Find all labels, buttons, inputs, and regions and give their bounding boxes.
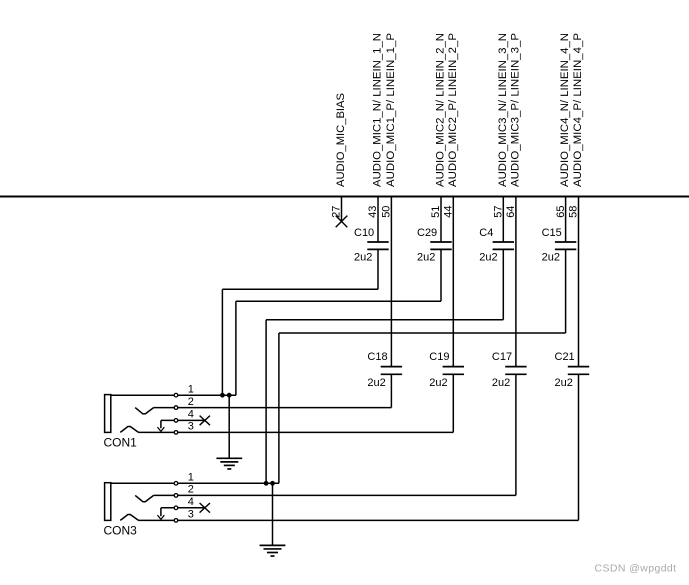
svg-text:C15: C15 bbox=[542, 227, 562, 239]
svg-text:C4: C4 bbox=[479, 227, 493, 239]
svg-text:AUDIO_MIC4_P/ LINEIN_4_P: AUDIO_MIC4_P/ LINEIN_4_P bbox=[572, 33, 584, 187]
svg-text:2: 2 bbox=[188, 396, 194, 408]
svg-text:C17: C17 bbox=[492, 351, 512, 363]
svg-text:50: 50 bbox=[381, 206, 393, 218]
svg-text:2u2: 2u2 bbox=[492, 377, 510, 389]
svg-text:AUDIO_MIC2_P/ LINEIN_2_P: AUDIO_MIC2_P/ LINEIN_2_P bbox=[447, 33, 459, 187]
svg-text:57: 57 bbox=[493, 206, 505, 218]
svg-text:2: 2 bbox=[188, 484, 194, 496]
svg-text:2u2: 2u2 bbox=[429, 377, 447, 389]
svg-text:CSDN @wpgddt: CSDN @wpgddt bbox=[595, 563, 677, 575]
svg-text:27: 27 bbox=[331, 206, 343, 218]
svg-text:43: 43 bbox=[367, 206, 379, 218]
svg-text:44: 44 bbox=[443, 206, 455, 218]
svg-text:C18: C18 bbox=[367, 351, 387, 363]
svg-text:C10: C10 bbox=[354, 227, 374, 239]
svg-text:CON3: CON3 bbox=[104, 524, 138, 538]
svg-text:2u2: 2u2 bbox=[555, 377, 573, 389]
svg-text:AUDIO_MIC_BIAS: AUDIO_MIC_BIAS bbox=[335, 93, 347, 187]
svg-text:2u2: 2u2 bbox=[417, 252, 435, 264]
svg-text:AUDIO_MIC3_N/ LINEIN_3_N: AUDIO_MIC3_N/ LINEIN_3_N bbox=[497, 33, 509, 187]
svg-text:2u2: 2u2 bbox=[479, 252, 497, 264]
svg-text:CON1: CON1 bbox=[104, 436, 138, 450]
svg-text:3: 3 bbox=[188, 421, 194, 433]
svg-text:AUDIO_MIC4_N/ LINEIN_4_N: AUDIO_MIC4_N/ LINEIN_4_N bbox=[559, 33, 571, 187]
svg-text:1: 1 bbox=[188, 472, 194, 484]
svg-text:58: 58 bbox=[568, 206, 580, 218]
svg-text:4: 4 bbox=[188, 409, 194, 421]
svg-text:1: 1 bbox=[188, 384, 194, 396]
svg-text:AUDIO_MIC1_P/ LINEIN_1_P: AUDIO_MIC1_P/ LINEIN_1_P bbox=[385, 33, 397, 187]
svg-text:AUDIO_MIC3_P/ LINEIN_3_P: AUDIO_MIC3_P/ LINEIN_3_P bbox=[509, 33, 521, 187]
svg-text:64: 64 bbox=[505, 206, 517, 218]
svg-text:2u2: 2u2 bbox=[354, 252, 372, 264]
svg-text:2u2: 2u2 bbox=[367, 377, 385, 389]
svg-text:4: 4 bbox=[188, 496, 194, 508]
svg-text:51: 51 bbox=[430, 206, 442, 218]
svg-text:C19: C19 bbox=[429, 351, 449, 363]
svg-text:2u2: 2u2 bbox=[542, 252, 560, 264]
svg-text:C21: C21 bbox=[555, 351, 575, 363]
svg-text:C29: C29 bbox=[417, 227, 437, 239]
svg-text:AUDIO_MIC1_N/ LINEIN_1_N: AUDIO_MIC1_N/ LINEIN_1_N bbox=[372, 33, 384, 187]
svg-text:AUDIO_MIC2_N/ LINEIN_2_N: AUDIO_MIC2_N/ LINEIN_2_N bbox=[435, 33, 447, 187]
svg-text:65: 65 bbox=[555, 206, 567, 218]
svg-text:3: 3 bbox=[188, 509, 194, 521]
